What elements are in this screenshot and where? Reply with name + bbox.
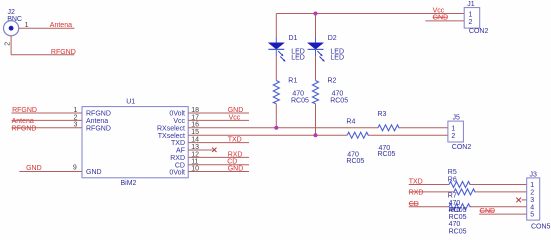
svg-text:RFGND: RFGND — [12, 125, 37, 132]
svg-text:1: 1 — [530, 182, 534, 189]
svg-text:9: 9 — [73, 164, 77, 171]
LED D1 value text — [291, 48, 305, 61]
junction R2 bottom — [314, 133, 318, 137]
wire U1 pin12 — [188, 156, 249, 158]
wire CD to R7 — [409, 206, 449, 208]
svg-text:RXD: RXD — [170, 155, 185, 162]
wire U1 pin16 to R3 — [188, 127, 378, 129]
wire GND to J1 pin2 — [425, 20, 464, 22]
resistor R3 value — [378, 145, 396, 158]
wire R4 to J5 pin2 — [369, 134, 448, 136]
LED D1 symbol — [268, 37, 285, 62]
resistor R4 zigzag — [347, 132, 369, 138]
svg-text:CON2: CON2 — [469, 28, 489, 35]
svg-text:470: 470 — [449, 221, 461, 228]
svg-text:5: 5 — [530, 212, 534, 219]
wire D1 to R1 — [275, 56, 277, 81]
wire U1 pin9 — [19, 171, 82, 173]
svg-text:TXD: TXD — [171, 140, 185, 147]
wire U1 pin17 — [188, 119, 249, 121]
junction R1 bottom — [274, 126, 278, 130]
wire U1 pin2 — [12, 119, 83, 121]
svg-text:470: 470 — [449, 200, 461, 207]
svg-text:J3: J3 — [530, 171, 538, 178]
wire J2 pin2 down — [10, 36, 12, 55]
node GND (bottom) — [480, 208, 496, 215]
svg-text:RC05: RC05 — [449, 228, 467, 235]
junction on top rail at D2 — [314, 12, 318, 16]
svg-text:3: 3 — [530, 197, 534, 204]
wire R1 to pin16 line — [275, 104, 277, 128]
svg-text:D2: D2 — [328, 35, 337, 42]
resistor R7 zigzag — [449, 204, 471, 210]
svg-text:Vcc: Vcc — [173, 118, 185, 125]
svg-text:Antena: Antena — [12, 118, 34, 125]
node CD (bottom) — [409, 201, 419, 208]
resistor R4 value — [346, 152, 364, 165]
node GND (J1) — [433, 15, 449, 22]
svg-text:RC05: RC05 — [449, 207, 467, 214]
wire D2 to R2 — [315, 56, 317, 81]
wire RXD to R6 — [409, 191, 454, 193]
LED D2 symbol — [308, 37, 325, 62]
svg-text:Antena: Antena — [86, 118, 108, 125]
svg-text:RFGND: RFGND — [86, 111, 111, 118]
wire Vcc top rail — [276, 13, 464, 15]
svg-text:4: 4 — [530, 204, 534, 211]
resistor R6 zigzag — [454, 189, 476, 195]
svg-text:CON2: CON2 — [452, 144, 472, 151]
wire U1 pin13 stub — [188, 149, 212, 151]
svg-text:GND: GND — [86, 169, 102, 176]
svg-text:AF: AF — [176, 148, 185, 155]
svg-text:RC05: RC05 — [449, 214, 467, 221]
svg-text:R3: R3 — [378, 111, 387, 118]
svg-text:2: 2 — [5, 42, 12, 46]
wire U1 pin10 — [188, 171, 249, 173]
wire R5 to J3 pin1 — [471, 184, 527, 186]
wire D2 column upper — [315, 14, 317, 38]
resistor R5 zigzag — [449, 182, 471, 188]
wire U1 pin14 — [188, 142, 249, 144]
svg-text:2: 2 — [469, 19, 473, 26]
resistor R1 zigzag — [273, 81, 279, 104]
wire TXD to R5 — [409, 184, 449, 186]
wire R6 to J3 pin2 — [476, 191, 527, 193]
resistor R1 value — [291, 90, 309, 104]
IC U1 body — [82, 107, 188, 178]
svg-text:LED: LED — [291, 54, 305, 61]
svg-text:GND: GND — [26, 165, 42, 172]
svg-text:J2: J2 — [8, 9, 16, 16]
svg-text:CON5: CON5 — [531, 224, 551, 231]
svg-text:R5: R5 — [448, 169, 457, 176]
wire U1 pin1 — [12, 112, 83, 114]
connector J2 BNC designator — [7, 9, 22, 23]
resistor R2 zigzag — [313, 81, 319, 104]
svg-text:2: 2 — [451, 133, 455, 140]
wire R7 to J3 pin4 — [471, 206, 527, 208]
wire R3 to J5 pin1 — [400, 127, 448, 129]
svg-text:R6: R6 — [448, 177, 457, 184]
svg-text:R7: R7 — [448, 193, 457, 200]
resistor R2 value — [330, 90, 348, 104]
svg-text:1: 1 — [451, 126, 455, 133]
wire U1 pin3 — [12, 127, 83, 129]
svg-text:RC05: RC05 — [291, 97, 309, 104]
connector J1 body — [464, 8, 480, 29]
svg-text:2: 2 — [530, 190, 534, 197]
svg-text:J5: J5 — [453, 114, 461, 121]
wire J2 pin1 to Antena — [19, 27, 75, 29]
wire J2 pin2 to RFGND — [11, 54, 74, 56]
no-connect X at U1 pin13 — [212, 148, 216, 152]
svg-text:RXselect: RXselect — [157, 125, 185, 132]
resistor R3 zigzag — [378, 125, 400, 131]
wire U1 pin11 — [188, 164, 249, 166]
connector J2 BNC symbol — [4, 21, 19, 36]
svg-text:BiM2: BiM2 — [121, 180, 137, 187]
LED D2 value text — [330, 48, 344, 61]
svg-text:Antena: Antena — [50, 22, 72, 29]
svg-text:RC05: RC05 — [346, 158, 364, 165]
svg-text:J1: J1 — [467, 1, 475, 8]
wire U1 pin18 — [188, 112, 249, 114]
svg-text:Vcc: Vcc — [433, 8, 445, 15]
wire GND to J3 pin5 — [479, 213, 527, 215]
wire D1 column upper — [275, 14, 277, 38]
svg-text:RXD: RXD — [409, 189, 424, 196]
svg-text:RFGND: RFGND — [86, 125, 111, 132]
svg-text:0Volt: 0Volt — [169, 111, 185, 118]
svg-text:R2: R2 — [328, 78, 337, 85]
connector J3 body — [527, 178, 540, 220]
svg-text:TXselect: TXselect — [158, 133, 185, 140]
svg-text:RC05: RC05 — [378, 151, 396, 158]
svg-text:U1: U1 — [126, 98, 135, 105]
svg-text:R1: R1 — [288, 78, 297, 85]
svg-text:1: 1 — [469, 11, 473, 18]
svg-text:RC05: RC05 — [330, 97, 348, 104]
svg-text:LED: LED — [330, 54, 344, 61]
svg-text:D1: D1 — [289, 35, 298, 42]
svg-text:R4: R4 — [346, 119, 355, 126]
svg-text:0Volt: 0Volt — [169, 170, 185, 177]
no-connect X at J3 pin3 — [516, 198, 526, 203]
wire U1 pin15 to R4 — [188, 134, 347, 136]
wire R2 to pin15 line — [315, 104, 317, 135]
connector J5 body — [448, 121, 464, 142]
svg-text:RFGND: RFGND — [51, 49, 76, 56]
svg-text:CD: CD — [175, 162, 185, 169]
